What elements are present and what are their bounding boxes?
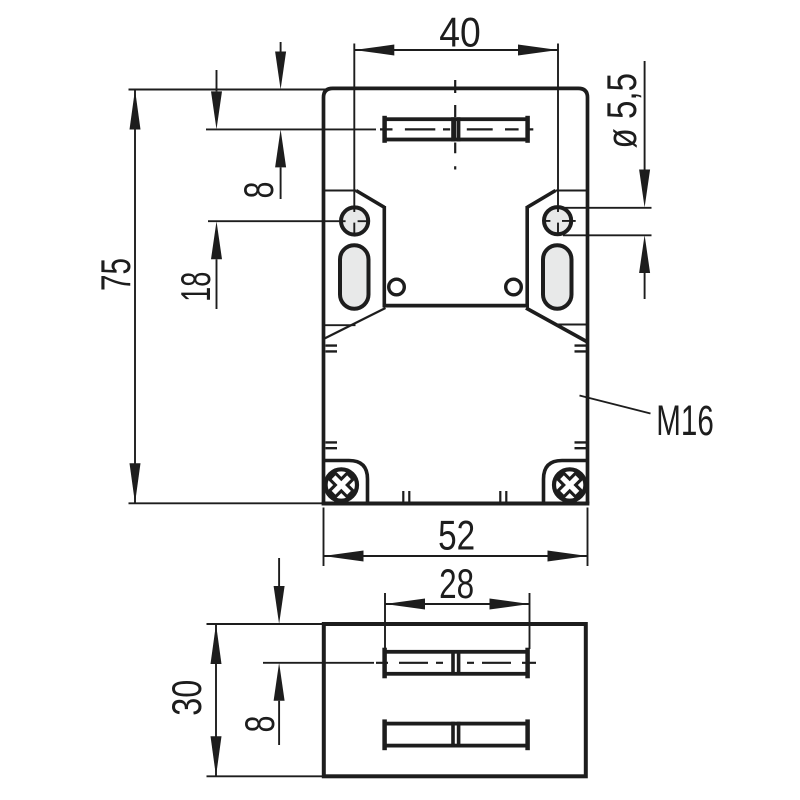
small circle right [506, 279, 522, 295]
svg-text:75: 75 [92, 258, 139, 291]
small circle left [389, 279, 405, 295]
right oval slot [543, 245, 572, 309]
dimension 18 tails [216, 70, 218, 309]
left edge lower tick pair [326, 442, 338, 448]
dimension 30 line [215, 624, 217, 776]
dimension ø5,5 line segments [644, 61, 646, 299]
lower slot left cap [382, 719, 387, 750]
extension line right hole vertical (40) [557, 44, 559, 236]
upper slot dash-dot centerline [376, 662, 536, 664]
left screw lobe [322, 461, 368, 503]
52 extension right [587, 508, 589, 567]
arrow 18 down [211, 91, 222, 129]
arrow 28 left [385, 599, 425, 610]
left screw head circle [326, 469, 357, 500]
slot left end cap [382, 116, 387, 143]
right ear chamfer [527, 191, 555, 208]
ø5,5 tangent leader top [563, 207, 652, 209]
dimension 52 line [324, 555, 588, 557]
8 bottom extension line (slot center) [263, 662, 374, 664]
arrow 30 down [211, 736, 222, 776]
lower slot center divider bars [453, 722, 459, 748]
right screw lobe [544, 461, 590, 503]
arrow ø5,5 up [639, 235, 650, 273]
28 extension right [529, 593, 531, 649]
arrowheads top view [130, 45, 651, 562]
extension line top edge (75/8) [129, 89, 331, 91]
right hole horizontal crosshair [544, 220, 575, 222]
right lower thin horizontal [557, 324, 588, 326]
arrow 52 right [548, 551, 588, 562]
svg-text:52: 52 [438, 512, 475, 559]
arrow 18 up [211, 221, 222, 259]
extension line slot center (8/18) [206, 128, 376, 130]
slot center divider bars [453, 117, 459, 141]
lower slot right cap [525, 719, 530, 750]
30 extension top [207, 623, 323, 625]
horizontal dash-dot centerline of slot [380, 128, 533, 130]
right screw phillips cross [552, 467, 587, 502]
right ear top thin line [556, 190, 588, 192]
arrow 28 right [490, 599, 530, 610]
bottom edge notch left [403, 491, 409, 502]
arrow 40 left [354, 45, 394, 56]
bottom view upper slot outline [385, 652, 528, 674]
extension line hole center (18) [208, 220, 368, 222]
svg-text:40: 40 [439, 9, 481, 56]
dimension 75 line [134, 90, 136, 504]
ø5,5 tangent leader bottom [563, 234, 652, 236]
arrow 52 left [324, 551, 364, 562]
arrow 40 right [518, 45, 558, 56]
slot right end cap [525, 116, 530, 143]
svg-text:M16: M16 [656, 397, 714, 445]
left ear chamfer [356, 191, 384, 208]
right mounting hole ø5.5 [544, 207, 571, 234]
svg-text:8: 8 [236, 716, 283, 733]
inner horizontal edge between ears [383, 304, 530, 308]
arrow 8 bottom up [274, 663, 285, 701]
svg-text:8: 8 [235, 182, 282, 199]
extension line left hole vertical (40) [353, 44, 355, 236]
top view bottom edge [322, 502, 590, 506]
dimension 8 top tails [280, 42, 282, 199]
arrowheads bottom view [211, 586, 530, 776]
dimension 40 line [354, 49, 558, 51]
extension line bottom edge (75) [129, 502, 323, 504]
bottom edge notch right [500, 491, 506, 502]
arrow 8 down [275, 52, 286, 90]
upper slot right cap [525, 648, 530, 679]
right screw head circle [554, 469, 585, 500]
dimension 28 line [385, 603, 530, 605]
right edge upper tick pair [575, 346, 587, 352]
svg-text:28: 28 [439, 560, 474, 607]
left lower thin diagonal [324, 308, 386, 339]
52 extension left [323, 508, 325, 567]
M16 leader line [580, 396, 651, 414]
left ear inner vertical edge [382, 206, 386, 306]
arrow 8 bottom down [274, 586, 285, 624]
30 extension bottom [207, 775, 323, 777]
left ear top thin line [324, 190, 357, 192]
arrow ø5,5 down [639, 170, 650, 208]
upper slot left cap [382, 648, 387, 679]
dimension 8 bottom tails [278, 558, 280, 745]
svg-text:18: 18 [172, 272, 219, 302]
mounting slot outline [385, 119, 528, 139]
left oval slot [340, 245, 369, 309]
right edge lower tick pair [575, 442, 587, 448]
svg-text:30: 30 [163, 680, 210, 716]
left mounting hole ø5.5 [341, 207, 368, 234]
right lower thick diagonal [526, 308, 588, 342]
left lower thin horizontal [324, 324, 356, 326]
bottom view lower slot outline [385, 724, 528, 746]
arrow 75 up [130, 90, 141, 130]
upper slot center divider bars [453, 650, 459, 676]
arrow 75 down [130, 463, 141, 503]
bottom view body rectangle [324, 624, 586, 776]
vertical dash-dot centerline [454, 80, 456, 170]
left screw phillips cross [324, 467, 588, 502]
arrow 8 up [275, 129, 286, 167]
svg-text:ø 5,5: ø 5,5 [598, 73, 645, 149]
arrow 30 up [211, 624, 222, 664]
28 extension left [384, 593, 386, 649]
left edge upper tick pair [326, 346, 338, 352]
top view body outline [324, 88, 588, 503]
right ear inner vertical edge [525, 206, 529, 306]
